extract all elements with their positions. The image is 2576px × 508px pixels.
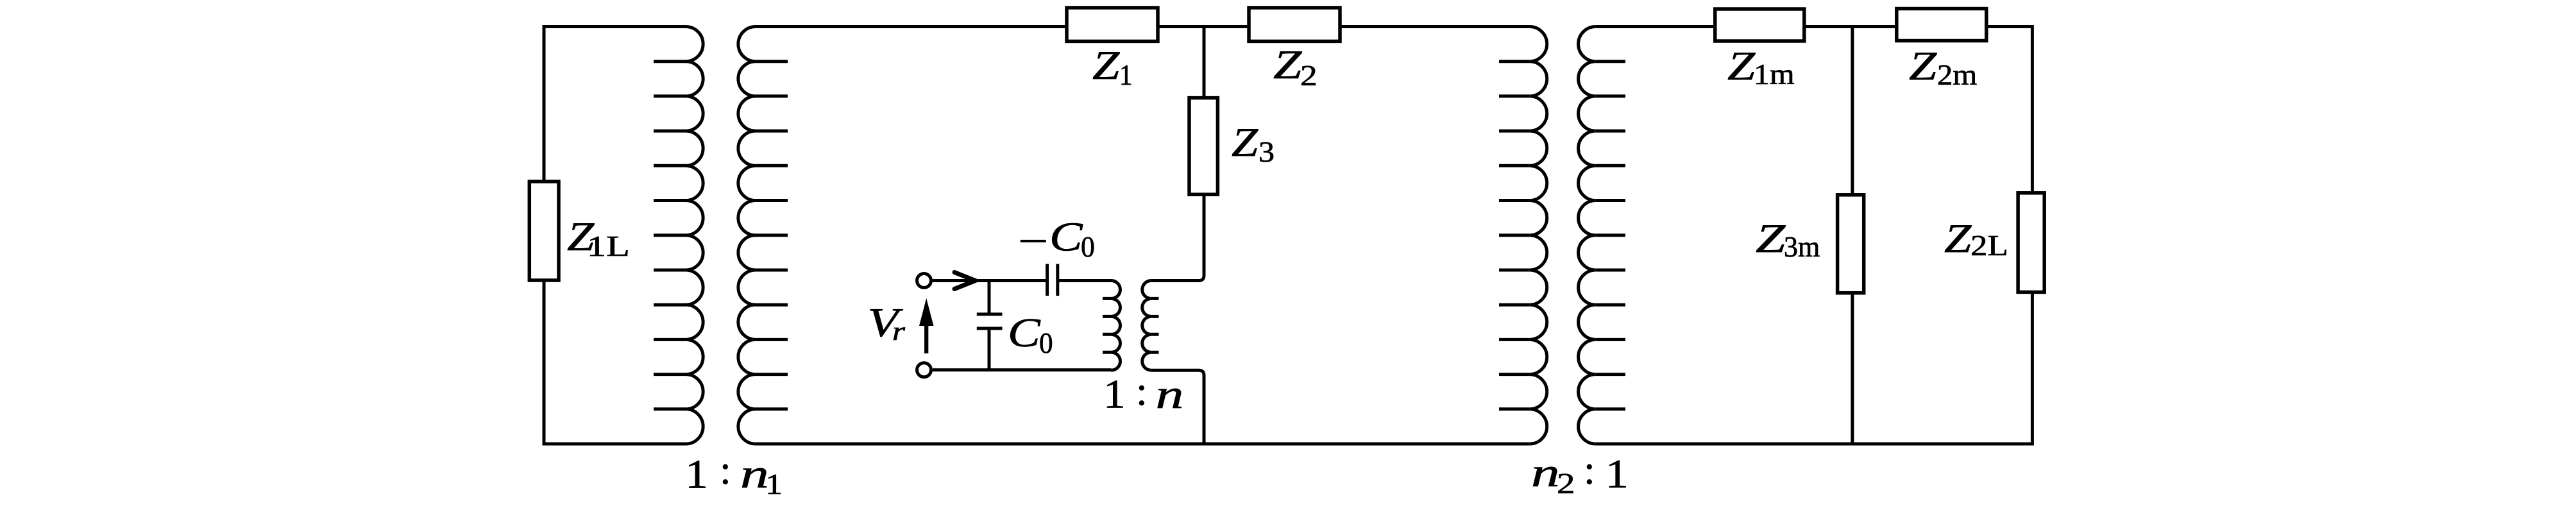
svg-text:2: 2 xyxy=(1557,468,1575,500)
svg-text:Z: Z xyxy=(1232,119,1259,165)
wire C0 to bottom xyxy=(988,328,991,370)
resistor Z1L xyxy=(529,182,559,280)
svg-text:1: 1 xyxy=(765,468,783,500)
wire Z2m to right corner xyxy=(1987,27,2033,193)
wire -C0 to Tn xyxy=(1058,279,1112,282)
capacitor C0 plate bottom xyxy=(977,327,1003,330)
svg-text:−: − xyxy=(1018,218,1049,264)
wire junction down to C0 xyxy=(988,281,991,314)
wire left branch bottom xyxy=(544,280,686,444)
svg-text:r: r xyxy=(892,316,906,346)
svg-text:Z: Z xyxy=(1944,216,1972,261)
wire T2 to Z1m xyxy=(1596,25,1715,28)
transformer Tn secondary stubs xyxy=(1151,298,1159,352)
resistor Z2m xyxy=(1897,9,1987,41)
transformer T1 primary stubs xyxy=(654,62,686,409)
terminal bottom xyxy=(917,363,931,377)
svg-text:0: 0 xyxy=(1039,327,1053,359)
svg-text:Z: Z xyxy=(1092,42,1121,88)
svg-text:2m: 2m xyxy=(1937,59,1977,91)
voltage arrow head xyxy=(919,298,934,326)
svg-text:Z: Z xyxy=(1273,42,1303,87)
wire node to Z3 xyxy=(1203,27,1206,98)
svg-text:1m: 1m xyxy=(1754,58,1795,90)
svg-text:Z: Z xyxy=(1909,43,1938,89)
wire Z3 to transformer Tn xyxy=(1151,194,1204,280)
transformer T2 primary stubs xyxy=(1499,62,1530,409)
svg-text:1: 1 xyxy=(1606,451,1629,496)
wire bottom middle xyxy=(756,443,1530,446)
svg-text::: : xyxy=(1584,447,1595,493)
svg-text:1L: 1L xyxy=(587,230,630,262)
svg-text:Z: Z xyxy=(1727,43,1756,89)
transformer T2 secondary winding xyxy=(1579,27,1596,444)
resistor Z1 xyxy=(1067,8,1158,41)
wire source bottom xyxy=(933,368,1112,371)
resistor Z3m xyxy=(1838,195,1864,293)
terminal top xyxy=(917,274,931,288)
transformer T2 primary winding xyxy=(1530,27,1547,444)
svg-text:3: 3 xyxy=(1258,136,1275,168)
resistor Z1m xyxy=(1715,9,1804,41)
wire Z1m to Z2m xyxy=(1804,25,1897,28)
wire Z2 to T2 xyxy=(1340,25,1530,28)
svg-text::: : xyxy=(720,447,731,493)
transformer T1 secondary winding xyxy=(738,27,756,444)
wire node down to Z3m xyxy=(1851,27,1854,195)
voltage arrow stem xyxy=(924,323,928,353)
capacitor -C0 plate right xyxy=(1056,264,1059,296)
svg-text:C: C xyxy=(1008,310,1041,355)
resistor Z2L xyxy=(2018,193,2044,292)
wire Z1 to Z2 xyxy=(1158,25,1249,28)
transformer T1 secondary stubs xyxy=(756,62,788,409)
transformer T2 secondary stubs xyxy=(1596,62,1625,409)
svg-text:0: 0 xyxy=(1081,231,1095,263)
capacitor C0 plate top xyxy=(977,312,1003,316)
wire top middle xyxy=(756,25,1067,28)
svg-text:n: n xyxy=(1531,450,1560,495)
wire Tn secondary to bottom xyxy=(1151,370,1204,444)
svg-text:n: n xyxy=(1156,371,1184,417)
resistor Z2 xyxy=(1249,8,1340,41)
wire Z3m to bottom xyxy=(1851,293,1854,444)
svg-text:1: 1 xyxy=(1103,371,1126,417)
svg-text::: : xyxy=(1136,368,1148,414)
wire source top xyxy=(933,279,1047,282)
transformer Tn primary stubs xyxy=(1103,298,1112,352)
svg-text:Z: Z xyxy=(1756,216,1786,261)
svg-text:2L: 2L xyxy=(1970,230,2008,262)
wire bottom right xyxy=(1596,292,2033,444)
transformer Tn primary winding xyxy=(1112,281,1121,371)
svg-text:1: 1 xyxy=(685,451,708,496)
svg-text:3m: 3m xyxy=(1784,231,1820,263)
wire left branch top xyxy=(544,27,686,182)
svg-text:2: 2 xyxy=(1300,60,1318,92)
transformer Tn secondary winding xyxy=(1142,281,1151,371)
svg-text:1: 1 xyxy=(1119,59,1133,91)
arrow on source wire xyxy=(954,273,976,289)
capacitor -C0 plate left xyxy=(1046,264,1049,296)
resistor Z3 xyxy=(1189,98,1217,195)
svg-text:n: n xyxy=(740,451,769,496)
svg-text:C: C xyxy=(1049,214,1083,260)
transformer T1 primary winding xyxy=(686,27,703,444)
